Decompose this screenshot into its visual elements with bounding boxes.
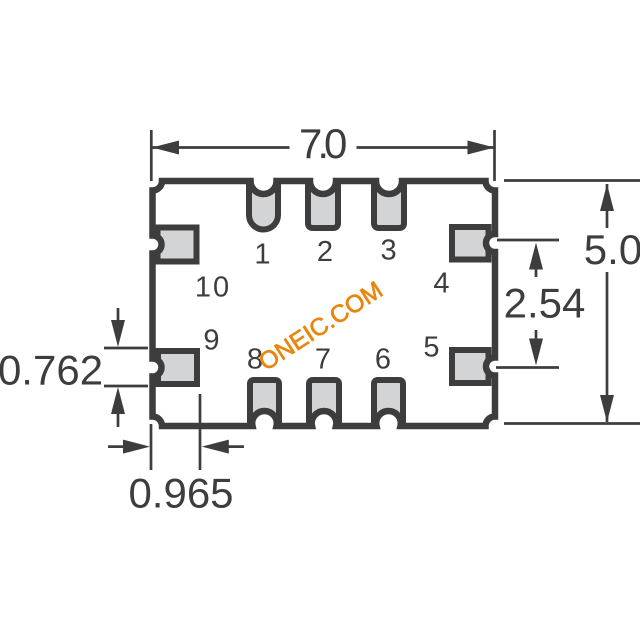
- svg-text:1: 1: [254, 239, 270, 271]
- svg-text:5.0: 5.0: [584, 226, 640, 273]
- svg-text:3: 3: [381, 235, 397, 267]
- svg-text:9: 9: [203, 325, 219, 357]
- svg-text:6: 6: [375, 343, 391, 375]
- svg-text:7: 7: [315, 343, 331, 375]
- svg-text:4: 4: [433, 268, 449, 300]
- svg-text:7.0: 7.0: [299, 120, 346, 167]
- svg-text:2.54: 2.54: [504, 280, 586, 327]
- svg-text:0.762: 0.762: [0, 347, 103, 394]
- svg-text:5: 5: [423, 332, 439, 364]
- svg-text:10: 10: [195, 271, 231, 303]
- svg-text:0.965: 0.965: [128, 470, 233, 517]
- svg-text:2: 2: [317, 236, 333, 268]
